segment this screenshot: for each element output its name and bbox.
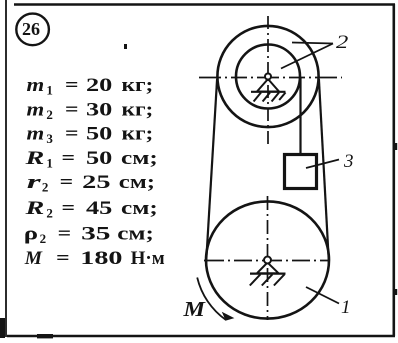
cord to load 3 [299,78,301,155]
given data line r2 [27,172,155,195]
pulley 2 inner circle [236,45,300,109]
given data line m3 [27,124,154,147]
svg-text:кг;: кг; [122,124,154,145]
svg-text:3: 3 [343,151,354,172]
svg-text:r: r [27,172,42,193]
svg-text:30: 30 [86,99,112,120]
given data line rho2 [24,224,154,247]
svg-text:2: 2 [46,206,53,221]
svg-text:кг;: кг; [122,99,154,120]
svg-text:см;: см; [117,224,154,245]
svg-text:=: = [56,248,69,269]
bottom border thick segment [37,334,53,338]
pivot support of wheel 1: pin circle [264,257,271,264]
pivot support of pulley 2: ground line [251,91,286,93]
svg-text:=: = [60,172,74,193]
svg-text:35: 35 [81,224,110,245]
belt left side [206,79,217,263]
speck above text [124,44,127,49]
moment arrow head [223,313,233,320]
svg-text:=: = [65,75,79,96]
svg-text:1: 1 [46,156,53,171]
pulley 2 horizontal centerline [199,77,342,79]
svg-text:20: 20 [86,75,112,96]
svg-text:см;: см; [121,198,158,219]
svg-text:45: 45 [86,198,112,219]
pulley 2 outer circle [217,26,318,127]
label 2 leader lower line [281,44,333,69]
svg-text:50: 50 [86,124,112,145]
svg-text:кг;: кг; [122,75,154,96]
svg-text:см;: см; [119,172,155,193]
svg-text:2: 2 [336,32,349,53]
svg-text:3: 3 [46,131,53,146]
svg-text:m: m [27,124,45,145]
pivot support of pulley 2: triangle [257,79,279,92]
right border speck lower [395,289,397,295]
pivot support of wheel 1: ground line [250,273,286,275]
svg-text:m: m [27,99,45,120]
svg-text:26: 26 [22,19,40,39]
pivot support of pulley 2: pin circle [265,74,271,80]
problem number badge circle 26 [16,14,49,46]
given data line R1 [24,148,158,171]
given data line m2 [27,99,154,122]
svg-text:1: 1 [46,83,53,98]
label 1 leader line [306,287,339,304]
frame bottom border [7,335,395,338]
svg-text:=: = [65,99,79,120]
label 3 leader line [306,160,339,169]
belt right side [319,79,329,263]
right border speck upper [395,143,397,150]
frame top border [14,3,395,5]
moment arrow arc [197,278,226,321]
svg-text:=: = [58,224,71,245]
label 2 leader upper line [292,43,333,44]
svg-text:ρ: ρ [24,224,38,245]
bottom-left thick scan bar [0,318,5,338]
given data line R2 [24,198,158,221]
svg-text:25: 25 [82,172,110,193]
svg-text:=: = [62,198,76,219]
svg-text:m: m [27,75,45,96]
svg-text:M: M [182,297,206,321]
svg-text:R: R [24,148,44,169]
svg-text:Н·м: Н·м [131,248,165,269]
pulley 2 vertical centerline [267,16,269,145]
wheel 1 vertical centerline [267,196,269,320]
svg-text:180: 180 [80,248,122,269]
frame right border [392,4,395,336]
pivot support of pulley 2: hatching [254,93,286,102]
svg-text:50: 50 [86,148,112,169]
svg-text:1: 1 [341,297,351,318]
given data line M [24,248,165,269]
svg-text:см;: см; [121,148,158,169]
wheel 1 horizontal centerline [204,260,330,262]
given data line m1 [27,75,154,98]
svg-text:=: = [62,148,76,169]
svg-text:2: 2 [46,107,53,122]
svg-text:=: = [65,124,79,145]
wheel 1 circle [206,201,329,318]
svg-text:M: M [24,248,43,269]
load 3 box [285,155,317,189]
svg-text:R: R [24,198,44,219]
svg-text:2: 2 [42,180,49,195]
pivot support of wheel 1: hatching [250,274,285,285]
frame left border [5,0,7,337]
pivot support of wheel 1: triangle [257,263,279,274]
svg-text:2: 2 [40,231,47,246]
